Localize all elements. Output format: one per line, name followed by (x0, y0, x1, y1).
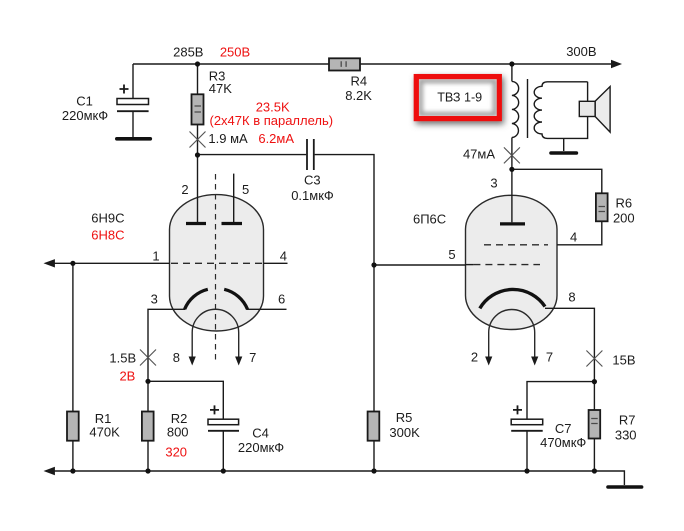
svg-text:5: 5 (448, 247, 455, 262)
svg-text:0.1мкФ: 0.1мкФ (291, 188, 334, 203)
svg-text:R7: R7 (619, 412, 636, 427)
svg-text:3: 3 (151, 292, 158, 307)
svg-text:R6: R6 (615, 196, 632, 211)
svg-text:6Н8С: 6Н8С (91, 228, 124, 243)
svg-text:4: 4 (280, 249, 287, 264)
svg-text:300В: 300В (566, 44, 596, 59)
svg-text:C1: C1 (76, 94, 93, 109)
svg-text:4: 4 (570, 229, 577, 244)
svg-text:1.9 мА: 1.9 мА (208, 131, 248, 146)
svg-text:5: 5 (242, 182, 249, 197)
svg-text:6Н9С: 6Н9С (91, 211, 124, 226)
svg-text:8: 8 (568, 290, 575, 305)
svg-text:320: 320 (165, 445, 187, 460)
svg-text:47K: 47K (209, 81, 232, 96)
svg-text:8.2K: 8.2K (345, 88, 372, 103)
svg-text:470мкФ: 470мкФ (540, 435, 586, 450)
svg-text:R4: R4 (350, 73, 367, 88)
svg-text:1: 1 (152, 249, 159, 264)
svg-text:R5: R5 (396, 410, 413, 425)
svg-text:285В: 285В (173, 44, 203, 59)
svg-text:6: 6 (278, 292, 285, 307)
svg-text:15В: 15В (612, 353, 635, 368)
svg-text:C4: C4 (252, 426, 269, 441)
svg-text:220мкФ: 220мкФ (62, 108, 108, 123)
svg-text:2В: 2В (119, 369, 135, 384)
svg-text:200: 200 (613, 210, 635, 225)
svg-text:800: 800 (167, 424, 189, 439)
svg-text:ТВЗ 1-9: ТВЗ 1-9 (437, 90, 482, 104)
svg-text:6П6С: 6П6С (413, 211, 446, 226)
svg-text:23.5K: 23.5K (256, 99, 290, 114)
svg-text:250В: 250В (220, 44, 250, 59)
svg-text:330: 330 (615, 427, 637, 442)
svg-text:220мкФ: 220мкФ (238, 440, 284, 455)
svg-text:(2x47К в параллель): (2x47К в параллель) (209, 113, 333, 128)
svg-text:1.5В: 1.5В (109, 350, 136, 365)
svg-text:300K: 300K (389, 425, 420, 440)
svg-text:470K: 470K (89, 424, 120, 439)
svg-text:6.2мА: 6.2мА (258, 131, 294, 146)
svg-text:7: 7 (249, 350, 256, 365)
svg-text:2: 2 (471, 350, 478, 365)
svg-text:2: 2 (181, 182, 188, 197)
svg-text:C3: C3 (304, 173, 321, 188)
svg-text:8: 8 (173, 350, 180, 365)
svg-text:47мА: 47мА (463, 147, 495, 162)
svg-text:7: 7 (546, 350, 553, 365)
svg-text:3: 3 (490, 176, 497, 191)
